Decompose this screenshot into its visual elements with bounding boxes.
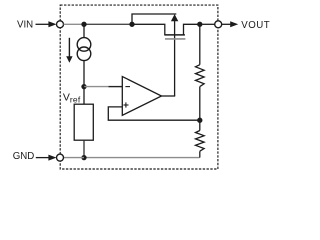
- wire Vref block to GND rail: [83, 140, 85, 157]
- junction VIN/current-source: [81, 22, 86, 27]
- resistor R1: [196, 65, 205, 87]
- junction VOUT/feedback divider: [197, 22, 202, 27]
- wire feedback node to resistor R2: [199, 120, 201, 130]
- svg-text:VIN: VIN: [17, 19, 33, 30]
- pass transistor M1 body arrow (points up): [171, 14, 178, 96]
- Vref block: [74, 104, 93, 140]
- svg-text:GND: GND: [13, 151, 35, 162]
- svg-text:Vref: Vref: [63, 92, 81, 105]
- op-amp U1 minus sign: [125, 86, 130, 88]
- node A (Vref / error-amp minus input): [81, 84, 86, 89]
- svg-text:VOUT: VOUT: [241, 20, 270, 31]
- pass transistor M1 drain stub to VOUT: [184, 24, 200, 35]
- wire VIN rail to pass transistor source: [64, 23, 84, 25]
- wire GND rail to GND node: [64, 157, 84, 159]
- wire VOUT junction to VOUT node: [202, 23, 215, 25]
- wire bulk connection over the top: [132, 14, 176, 24]
- wire R2 to GND rail: [198, 151, 201, 157]
- pass transistor M1 channel bar: [164, 34, 185, 36]
- dashed IC boundary: [60, 5, 218, 169]
- VIN input arrow: [36, 21, 57, 27]
- VOUT node (open circle on boundary): [215, 21, 222, 28]
- wire feedback to plus input: [108, 107, 200, 120]
- junction GND/Vref: [81, 155, 86, 160]
- GND node (open circle on boundary): [57, 154, 64, 161]
- current direction arrow: [66, 38, 72, 63]
- junction VIN/bulk wire: [129, 22, 134, 27]
- junction feedback node: [197, 118, 202, 123]
- op-amp U1 plus sign: [123, 102, 128, 107]
- wire node A to error-amp minus input: [84, 86, 109, 88]
- wire VIN rail to source stub: [132, 24, 165, 35]
- resistor R2: [196, 131, 205, 152]
- wire node A to Vref block: [83, 87, 85, 105]
- op-amp U1 (error amplifier): [122, 77, 161, 116]
- op-amp minus input stub: [109, 86, 123, 88]
- wire VIN rail mid: [84, 23, 132, 25]
- wire op-amp output to gate: [162, 95, 176, 97]
- wire R1 to feedback node: [199, 87, 201, 121]
- pass transistor M1 gate bar (gray): [165, 38, 185, 40]
- wire VOUT junction down to resistor R1: [199, 24, 201, 64]
- wire GND rail right segment: [84, 157, 200, 159]
- GND input arrow: [36, 155, 57, 161]
- VIN node (open circle on boundary): [57, 21, 64, 28]
- VOUT output arrow: [222, 21, 238, 27]
- current source I1: [77, 24, 91, 86]
